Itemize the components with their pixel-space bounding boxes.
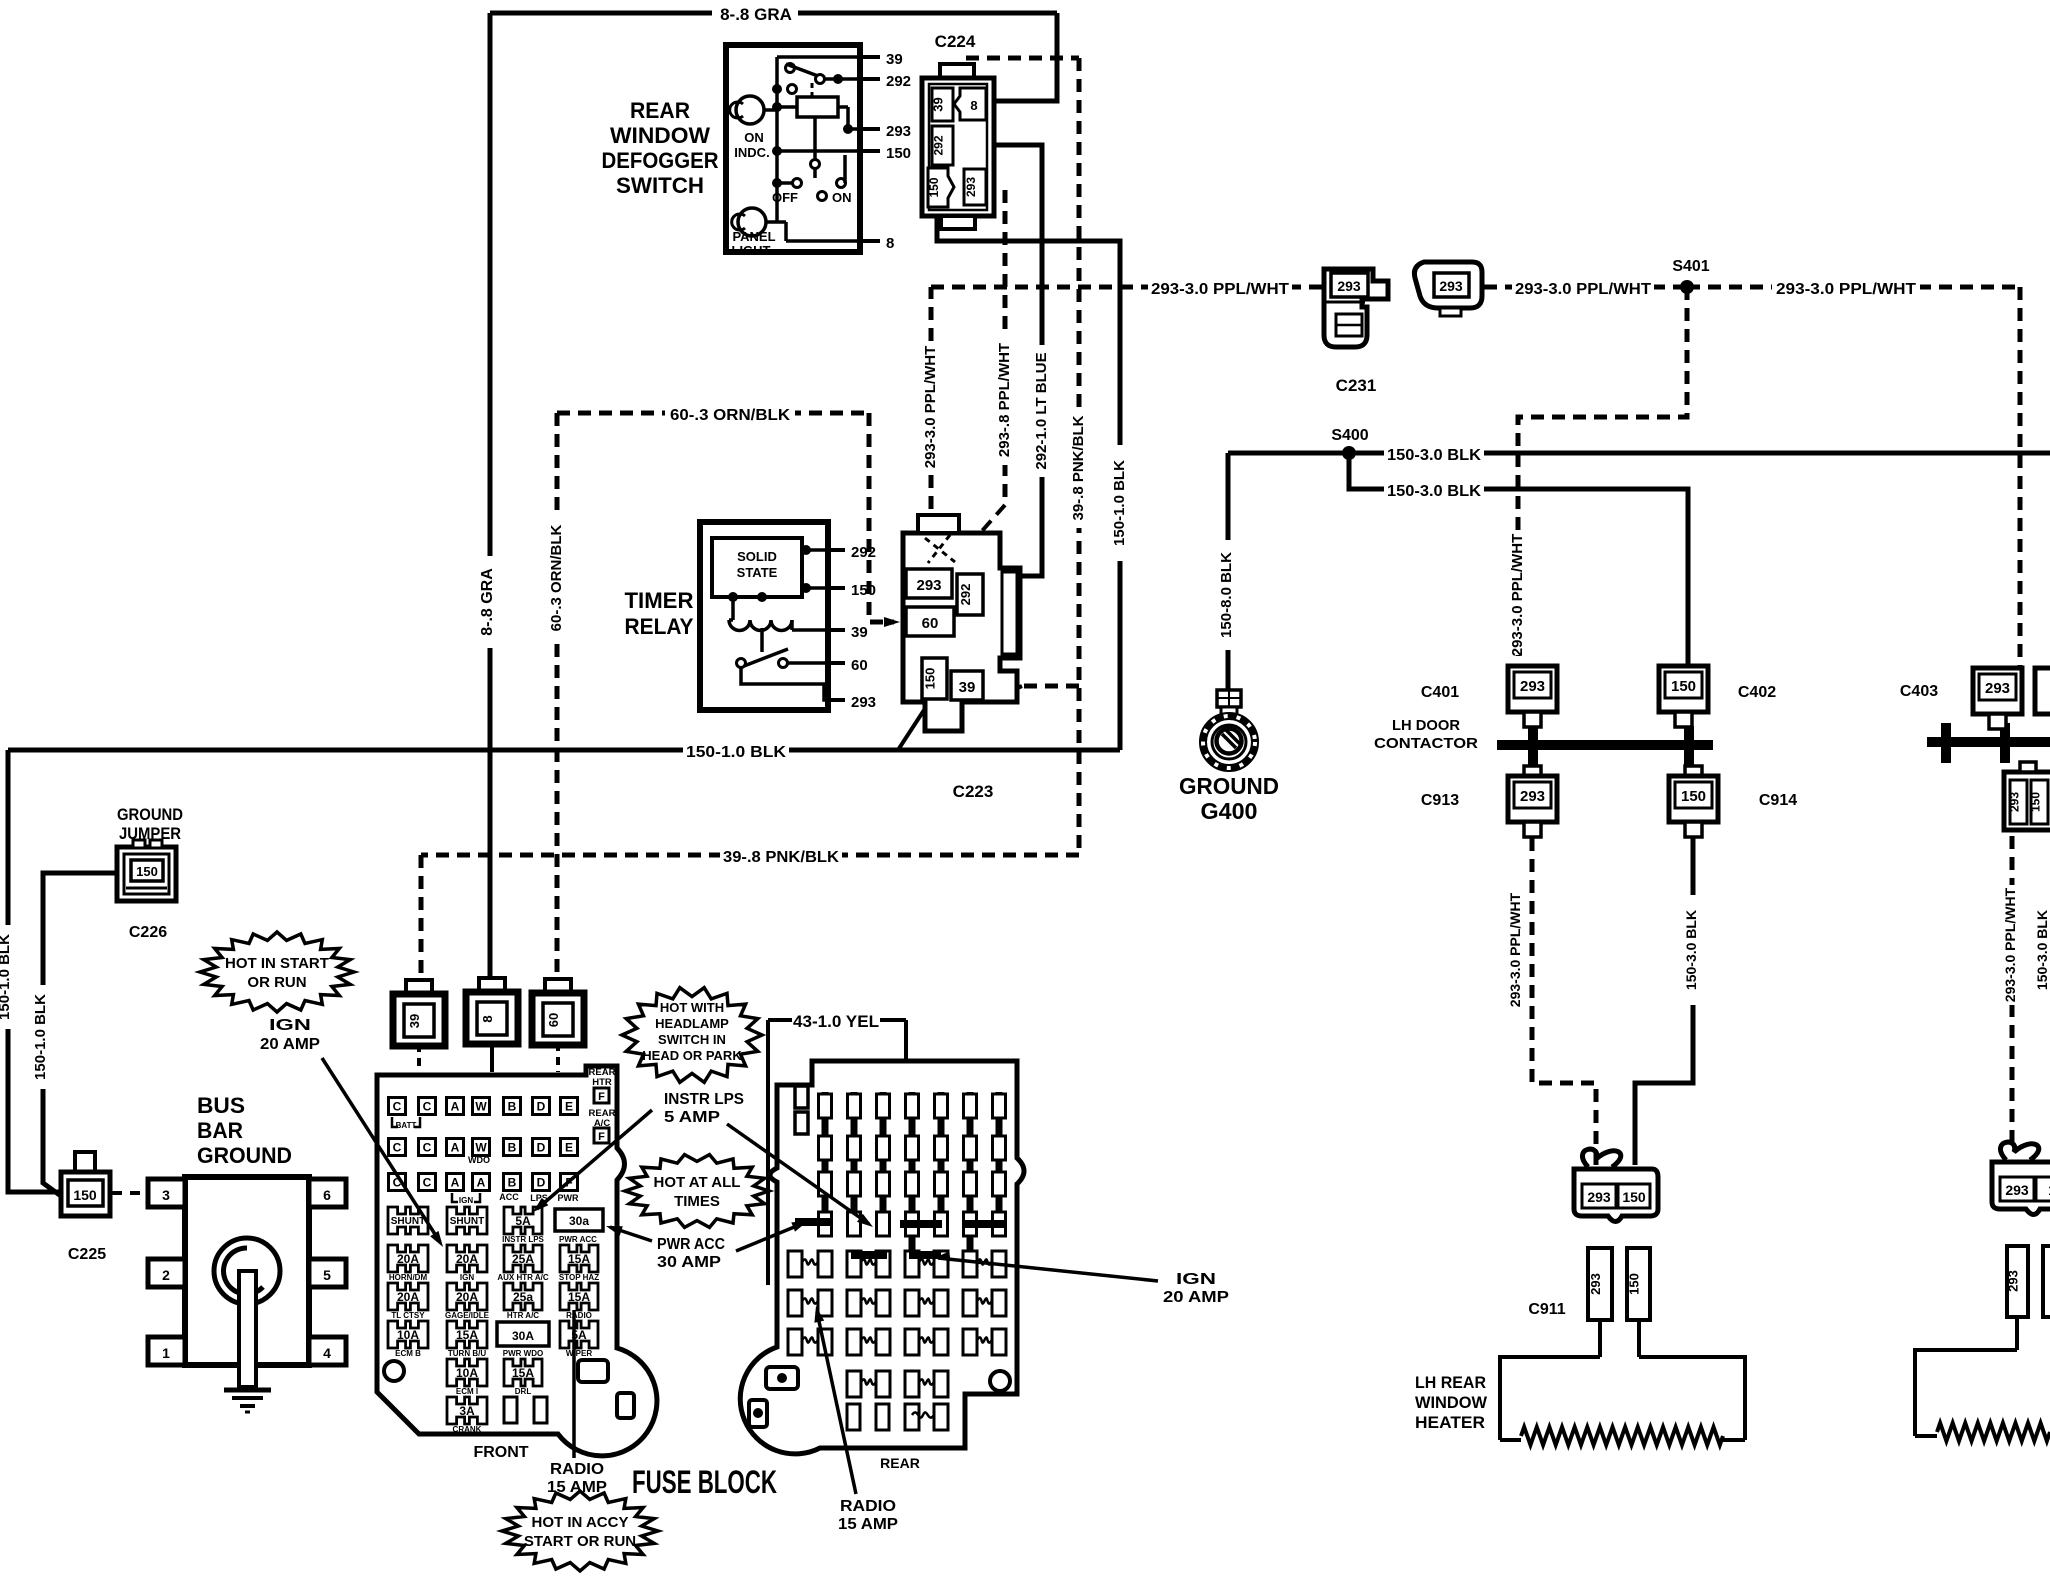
svg-text:293: 293 — [916, 577, 941, 594]
timer relay pin 292 — [828, 548, 845, 552]
svg-text:3A: 3A — [459, 1404, 475, 1418]
svg-text:SHUNT: SHUNT — [450, 1216, 484, 1227]
svg-text:WIPER: WIPER — [566, 1349, 592, 1358]
svg-text:150: 150 — [136, 864, 158, 879]
svg-text:20 AMP: 20 AMP — [260, 1036, 320, 1053]
wires into right heater connector — [2015, 1317, 2019, 1350]
svg-text:C911: C911 — [1528, 1301, 1565, 1318]
svg-text:CRANK: CRANK — [453, 1425, 482, 1434]
svg-text:293: 293 — [1520, 788, 1545, 805]
svg-text:293: 293 — [1587, 1189, 1611, 1205]
wire 60-.3 ORN/BLK left drop to connector 60 — [555, 413, 560, 981]
svg-text:F: F — [598, 1131, 605, 1143]
switch internal bus wire — [775, 57, 779, 222]
INSTR LPS leader to rear fuse — [727, 1124, 869, 1224]
switch movable contact — [811, 160, 820, 169]
svg-text:293-3.0 PPL/WHT: 293-3.0 PPL/WHT — [1507, 892, 1523, 1007]
fuse TL CTSY 20A — [388, 1283, 428, 1310]
wire 293-3.0 PPL/WHT right column below connector — [2010, 836, 2015, 1147]
svg-text:C: C — [423, 1100, 432, 1114]
wire 8-.8 GRA right drop into C224 pin 8 — [993, 13, 1057, 101]
timer relay solid state box — [712, 538, 802, 597]
batt bracket label — [392, 1117, 420, 1127]
fuse HTR A/C 25A — [504, 1283, 542, 1310]
svg-text:150-3.0 BLK: 150-3.0 BLK — [1387, 483, 1481, 500]
fuse HORN/DM 20A — [388, 1245, 428, 1272]
wire 150-1.0 BLK from C224 pin 150 — [937, 216, 1120, 750]
svg-text:C224: C224 — [935, 32, 976, 51]
connector C226 — [117, 847, 176, 901]
svg-text:IGN: IGN — [459, 1196, 473, 1205]
wire 293-3.0 PPL/WHT S401 branch to C401 — [1518, 287, 1687, 666]
RH door contactor bar (partial) — [1927, 737, 2050, 747]
svg-text:TL CTSY: TL CTSY — [391, 1311, 425, 1320]
svg-text:293: 293 — [2005, 1182, 2029, 1198]
fuse block connector 8 — [479, 978, 505, 992]
svg-text:LIGHT: LIGHT — [732, 243, 771, 258]
svg-text:HOT IN ACCY: HOT IN ACCY — [532, 1514, 629, 1531]
svg-text:BAR: BAR — [197, 1118, 243, 1143]
wire 293-3.0 PPL/WHT from C223 up — [929, 287, 934, 530]
svg-text:C223: C223 — [953, 782, 994, 801]
svg-text:C403: C403 — [1900, 683, 1938, 700]
wire 293-3.0 PPL/WHT far right drop to C403 — [2018, 287, 2023, 666]
wire 293-3.0 PPL/WHT horizontal to C231 — [931, 285, 1322, 290]
svg-text:REAR: REAR — [880, 1455, 920, 1471]
switch contact small — [788, 85, 797, 94]
svg-text:D: D — [537, 1176, 546, 1190]
fuse block connector 60 — [545, 979, 571, 993]
svg-text:8-.8 GRA: 8-.8 GRA — [479, 568, 496, 636]
timer relay box — [700, 522, 828, 710]
svg-text:150: 150 — [886, 145, 911, 162]
RH heater element — [1915, 1434, 1937, 1438]
rear block top-left bus tie — [851, 1251, 887, 1259]
svg-text:15A: 15A — [512, 1366, 534, 1380]
svg-text:60-.3 ORN/BLK: 60-.3 ORN/BLK — [670, 407, 790, 424]
svg-text:GROUND: GROUND — [1179, 773, 1279, 799]
svg-text:ACC: ACC — [499, 1192, 519, 1202]
svg-text:60: 60 — [922, 615, 939, 632]
svg-text:293: 293 — [1588, 1273, 1603, 1295]
fuse RADIO 15A — [560, 1283, 598, 1310]
fuse PWR WDO 30A — [497, 1322, 549, 1346]
svg-text:150-1.0 BLK: 150-1.0 BLK — [1111, 460, 1128, 546]
svg-text:150: 150 — [1681, 788, 1706, 805]
wire 150-1.0 BLK stub to C223 cavity 150 — [898, 704, 928, 750]
svg-text:20A: 20A — [397, 1290, 419, 1304]
fuse INSTR LPS 5A — [504, 1207, 542, 1234]
wire 150-8.0 BLK to ground G400 — [1226, 453, 1231, 690]
heater connector left (C911 mate) — [1582, 1149, 1620, 1167]
svg-text:5A: 5A — [515, 1214, 531, 1228]
wire 293-.8 PPL/WHT arrow into C223 cavity 293 — [958, 505, 1005, 558]
svg-text:C: C — [393, 1100, 402, 1114]
dashed link C225 to bus bar — [112, 1191, 146, 1195]
connector C401 — [1508, 666, 1557, 712]
fuse block connector 39 — [406, 980, 432, 994]
connector C224 body — [940, 64, 974, 78]
fuse WIPER 5A — [560, 1321, 598, 1348]
svg-text:C231: C231 — [1336, 376, 1377, 395]
C224 cavity 293 — [964, 169, 986, 205]
svg-text:LH DOOR: LH DOOR — [1392, 717, 1460, 734]
svg-text:F: F — [598, 1091, 605, 1103]
fuse TURN B/U 15A — [447, 1321, 487, 1348]
spare fuse slots — [504, 1397, 517, 1423]
svg-text:BUS: BUS — [197, 1093, 245, 1118]
bus bar pin 6 — [309, 1179, 346, 1207]
svg-text:INSTR LPS: INSTR LPS — [664, 1091, 744, 1108]
svg-text:C: C — [423, 1141, 432, 1155]
svg-text:150: 150 — [927, 177, 941, 197]
rear block lower elements — [847, 1371, 861, 1397]
svg-text:PANEL: PANEL — [732, 229, 775, 244]
switch pin stub 39 — [860, 55, 880, 59]
svg-text:FRONT: FRONT — [473, 1444, 528, 1461]
ign bracket label — [452, 1193, 480, 1202]
IGN 20 AMP leader line — [322, 1058, 440, 1242]
rear fuse block outline — [740, 1061, 1024, 1454]
rear window defogger switch box — [726, 45, 860, 252]
fuse AUX HTR A/C 25A — [504, 1245, 542, 1272]
svg-text:PWR WDO: PWR WDO — [503, 1349, 543, 1358]
fuse GAGE/IDLE 20A — [447, 1283, 487, 1310]
svg-text:SOLID: SOLID — [737, 549, 777, 564]
switch contact top — [786, 64, 795, 73]
svg-text:OFF: OFF — [772, 190, 798, 205]
connector C402 — [1659, 666, 1708, 712]
C223 hatch marks — [925, 538, 955, 562]
svg-text:IGN: IGN — [269, 1017, 311, 1034]
svg-text:293: 293 — [851, 694, 876, 711]
svg-text:PWR ACC: PWR ACC — [559, 1235, 597, 1244]
connector C231 half B — [1414, 262, 1482, 308]
svg-text:HOT WITH: HOT WITH — [660, 1000, 724, 1015]
svg-text:15 AMP: 15 AMP — [838, 1516, 898, 1533]
PWR ACC leader to front 30A — [610, 1227, 652, 1241]
svg-text:WINDOW: WINDOW — [610, 123, 710, 148]
connector C225 — [75, 1152, 95, 1172]
svg-text:8: 8 — [886, 235, 894, 252]
svg-text:8-.8 GRA: 8-.8 GRA — [720, 5, 792, 24]
switch pin stub 292 — [860, 77, 880, 81]
bus bar pin 1 — [148, 1337, 185, 1365]
svg-text:A: A — [451, 1141, 460, 1155]
rear block fuse element rows — [788, 1251, 802, 1277]
C223 cavity 39 — [951, 671, 983, 700]
svg-text:2: 2 — [162, 1267, 170, 1283]
svg-text:PWR ACC: PWR ACC — [657, 1236, 725, 1253]
svg-text:60: 60 — [851, 657, 868, 674]
INSTR LPS leader to front 5A fuse — [537, 1110, 652, 1209]
svg-text:A: A — [477, 1176, 486, 1190]
wire 150-3.0 BLK below C914 — [1635, 838, 1693, 1165]
wire 150-1.0 BLK left edge vertical — [8, 750, 61, 1192]
right body connector 293/150 — [2004, 772, 2050, 830]
svg-text:GROUND: GROUND — [117, 805, 183, 824]
svg-text:3: 3 — [162, 1187, 170, 1203]
svg-text:E: E — [565, 1141, 573, 1155]
svg-text:DRL: DRL — [515, 1387, 532, 1396]
C223 cavity 292 — [957, 574, 983, 615]
timer relay pin 60 — [828, 661, 845, 665]
svg-text:5: 5 — [323, 1267, 331, 1283]
svg-text:HOT IN START: HOT IN START — [225, 955, 329, 972]
svg-text:INSTR LPS: INSTR LPS — [502, 1235, 544, 1244]
RADIO leader front — [572, 1310, 576, 1458]
svg-text:GAGE/IDLE: GAGE/IDLE — [445, 1311, 490, 1320]
rear block bus bars — [822, 1092, 829, 1236]
connector C223 body — [903, 533, 1020, 731]
svg-text:FUSE BLOCK: FUSE BLOCK — [632, 1464, 777, 1500]
svg-text:C: C — [393, 1141, 402, 1155]
fuse DRL 15A — [504, 1359, 542, 1386]
svg-text:150-8.0 BLK: 150-8.0 BLK — [1218, 552, 1235, 638]
fuse PWR ACC 30A — [555, 1209, 603, 1231]
C224 cavity 8 — [954, 88, 986, 120]
front fuse block letter grid — [389, 1098, 406, 1115]
wire 293-3.0 PPL/WHT below C913 — [1532, 838, 1596, 1165]
C224 cavity 292 — [932, 126, 953, 165]
svg-text:150: 150 — [2029, 792, 2043, 812]
svg-text:150-3.0 BLK: 150-3.0 BLK — [1387, 447, 1481, 464]
rear block left clip — [795, 1086, 808, 1108]
svg-text:293-3.0 PPL/WHT: 293-3.0 PPL/WHT — [1509, 534, 1526, 657]
svg-text:39: 39 — [959, 679, 976, 696]
wire 150-1.0 BLK ground jumper branch — [43, 873, 117, 1196]
switch 150 contact row — [772, 146, 782, 156]
svg-text:293-3.0 PPL/WHT: 293-3.0 PPL/WHT — [922, 346, 939, 469]
svg-text:292-1.0 LT BLUE: 292-1.0 LT BLUE — [1033, 352, 1050, 469]
switch lamp PANEL LIGHT — [738, 208, 766, 236]
callout HOT IN START OR RUN — [200, 932, 354, 1012]
bus bar pin 4 — [309, 1337, 346, 1365]
svg-text:150-3.0 BLK: 150-3.0 BLK — [2034, 910, 2050, 990]
callout HOT IN ACCY START OR RUN — [502, 1491, 658, 1571]
connector C914 — [1685, 766, 1702, 776]
svg-text:RADIO: RADIO — [550, 1461, 604, 1478]
fuse SHUNT 1 — [388, 1207, 428, 1234]
LH rear window heater element — [1500, 1438, 1521, 1442]
callout HOT AT ALL TIMES — [625, 1155, 769, 1228]
front fuse block holes — [384, 1361, 404, 1381]
svg-text:RADIO: RADIO — [840, 1498, 896, 1515]
wires into left heater connector — [1598, 1320, 1602, 1357]
svg-text:D: D — [537, 1141, 546, 1155]
IGN 20 AMP leader to rear fuse — [938, 1258, 1158, 1281]
svg-text:HOT AT ALL: HOT AT ALL — [654, 1174, 741, 1191]
wire 39-.8 PNK/BLK vertical x1079 — [1077, 58, 1082, 855]
wire 293-.8 PPL/WHT from C224 pin 293 — [1003, 190, 1008, 505]
switch dashed link — [811, 83, 814, 97]
svg-text:150: 150 — [1671, 678, 1696, 695]
wire 292-1.0 LT BLUE from C224 pin 292 — [993, 145, 1042, 576]
svg-text:293: 293 — [1520, 678, 1545, 695]
svg-text:STATE: STATE — [737, 565, 778, 580]
C224 cavity 39 — [932, 88, 953, 121]
ground G400 symbol — [1217, 690, 1241, 707]
svg-text:HORN/DM: HORN/DM — [389, 1273, 428, 1282]
svg-text:W: W — [475, 1100, 487, 1114]
timer relay switch — [760, 628, 764, 652]
svg-text:150: 150 — [1627, 1273, 1642, 1295]
svg-text:HTR: HTR — [592, 1077, 612, 1088]
svg-text:15 AMP: 15 AMP — [547, 1479, 607, 1496]
heater connector right (partial) — [2000, 1142, 2038, 1160]
svg-text:293-3.0 PPL/WHT: 293-3.0 PPL/WHT — [1776, 281, 1916, 298]
svg-text:150: 150 — [1622, 1189, 1646, 1205]
svg-text:HEADLAMP: HEADLAMP — [655, 1016, 729, 1031]
C224 cavity 150 — [928, 168, 954, 207]
svg-text:E: E — [565, 1100, 573, 1114]
svg-text:15A: 15A — [568, 1252, 590, 1266]
svg-text:293: 293 — [1337, 278, 1361, 294]
svg-text:60: 60 — [546, 1013, 561, 1027]
svg-text:S400: S400 — [1331, 427, 1368, 444]
svg-text:D: D — [537, 1100, 546, 1114]
wire 293-3.0 PPL/WHT right of S401 — [1687, 285, 2020, 290]
svg-text:292: 292 — [932, 135, 946, 155]
svg-text:15A: 15A — [456, 1328, 478, 1342]
connector C913 — [1524, 766, 1541, 776]
bus bar stud and shaft — [214, 1238, 280, 1304]
timer relay coil — [731, 597, 735, 620]
switch pin stub 293 — [860, 127, 880, 131]
svg-text:39: 39 — [851, 624, 868, 641]
svg-text:PWR: PWR — [558, 1193, 579, 1203]
callout HOT WITH HEADLAMP SWITCH IN HEAD OR PARK — [622, 988, 762, 1083]
LH door contactor bar — [1497, 740, 1713, 750]
svg-text:HEAD OR PARK: HEAD OR PARK — [642, 1048, 742, 1063]
wire 150-3.0 BLK right column partial label — [2038, 900, 2050, 1000]
svg-text:BATT: BATT — [396, 1121, 417, 1130]
svg-text:292: 292 — [958, 584, 973, 606]
rear block bus links — [795, 1218, 831, 1226]
node S400 — [1342, 446, 1356, 460]
svg-text:293: 293 — [1439, 278, 1463, 294]
svg-text:39-.8 PNK/BLK: 39-.8 PNK/BLK — [723, 849, 839, 866]
svg-text:60-.3 ORN/BLK: 60-.3 ORN/BLK — [548, 524, 565, 631]
svg-text:G400: G400 — [1201, 798, 1258, 824]
svg-text:IGN: IGN — [460, 1273, 474, 1282]
bus bar ground symbol — [224, 1388, 271, 1393]
svg-text:25a: 25a — [513, 1290, 533, 1304]
svg-text:20 AMP: 20 AMP — [1163, 1289, 1229, 1306]
svg-text:S401: S401 — [1672, 258, 1709, 275]
svg-text:293: 293 — [2006, 1270, 2021, 1292]
connector C403 mate partial — [2035, 668, 2050, 714]
switch lamp ON INDC — [736, 96, 764, 124]
svg-text:C914: C914 — [1759, 792, 1797, 809]
C223 cavity 293 — [906, 569, 952, 598]
svg-text:B: B — [508, 1141, 517, 1155]
svg-text:293-3.0 PPL/WHT: 293-3.0 PPL/WHT — [2002, 887, 2018, 1002]
svg-text:GROUND: GROUND — [197, 1143, 292, 1168]
svg-text:293-3.0 PPL/WHT: 293-3.0 PPL/WHT — [1515, 281, 1651, 298]
svg-text:AUX HTR A/C: AUX HTR A/C — [497, 1273, 548, 1282]
C223 cavity 60 — [906, 607, 954, 636]
svg-text:ECM I: ECM I — [456, 1387, 478, 1396]
svg-text:RADIO: RADIO — [566, 1311, 592, 1320]
svg-text:293: 293 — [2008, 792, 2022, 812]
timer relay pin 293 — [828, 698, 845, 702]
svg-text:150-1.0 BLK: 150-1.0 BLK — [686, 744, 786, 761]
svg-text:REAR: REAR — [630, 98, 690, 123]
RH rear window heater leads — [1915, 1350, 2017, 1436]
svg-text:SWITCH: SWITCH — [616, 173, 704, 198]
C911 pin 293 — [1588, 1248, 1612, 1320]
svg-text:5 AMP: 5 AMP — [664, 1109, 720, 1126]
svg-text:293: 293 — [1985, 680, 2010, 697]
bus bar pin 2 — [148, 1259, 185, 1287]
svg-text:8: 8 — [970, 98, 977, 113]
wire 150-3.0 BLK main horizontal — [1228, 451, 2050, 456]
svg-text:292: 292 — [851, 544, 876, 561]
wire 60-.3 ORN/BLK horizontal y413 — [557, 411, 869, 416]
svg-text:150: 150 — [73, 1187, 97, 1203]
svg-text:ECM B: ECM B — [395, 1349, 421, 1358]
rear fuse block holes — [990, 1371, 1010, 1391]
wire 293-3.0 PPL/WHT arrow into C223 top — [931, 530, 946, 560]
wire 39-.8 PNK/BLK jog into C223 cavity 39 — [1022, 684, 1079, 689]
wire 43-1.0 YEL label bracket — [768, 1018, 792, 1022]
svg-text:30a: 30a — [569, 1214, 589, 1228]
svg-text:HEATER: HEATER — [1415, 1413, 1485, 1432]
svg-text:RELAY: RELAY — [625, 614, 694, 639]
svg-text:293-.8 PPL/WHT: 293-.8 PPL/WHT — [996, 343, 1013, 457]
front fuse block outline — [377, 1066, 657, 1456]
LH rear window heater leads — [1500, 1357, 1600, 1440]
node S401 — [1680, 280, 1694, 294]
svg-text:OR RUN: OR RUN — [247, 974, 306, 991]
svg-text:A: A — [451, 1100, 460, 1114]
svg-text:C: C — [423, 1176, 432, 1190]
wire 150-1.0 BLK horizontal y750 — [8, 748, 1120, 753]
wire 293-3.0 PPL/WHT between C231 and S401 — [1484, 285, 1687, 290]
switch pin stub 8 — [860, 239, 880, 243]
svg-text:C226: C226 — [129, 924, 167, 941]
C223 cavity 150 — [922, 658, 947, 699]
timer relay pin 150 — [828, 586, 845, 590]
wire 39-.8 PNK/BLK horizontal y855 — [421, 853, 1079, 858]
svg-text:START OR RUN: START OR RUN — [524, 1533, 636, 1550]
svg-text:TIMER: TIMER — [625, 588, 694, 613]
svg-text:20A: 20A — [456, 1252, 478, 1266]
svg-text:43-1.0 YEL: 43-1.0 YEL — [793, 1012, 879, 1031]
svg-text:10A: 10A — [397, 1328, 419, 1342]
svg-text:4: 4 — [323, 1345, 331, 1361]
svg-text:150-3.0 BLK: 150-3.0 BLK — [1683, 910, 1699, 990]
fuse IGN 20A — [447, 1245, 487, 1272]
svg-text:15A: 15A — [568, 1290, 590, 1304]
svg-text:IGN: IGN — [1176, 1271, 1216, 1288]
svg-text:A: A — [451, 1176, 460, 1190]
svg-text:293-3.0 PPL/WHT: 293-3.0 PPL/WHT — [1151, 281, 1289, 298]
svg-text:C225: C225 — [68, 1246, 106, 1263]
svg-text:STOP HAZ: STOP HAZ — [559, 1273, 599, 1282]
svg-text:8: 8 — [480, 1015, 495, 1022]
bus bar pin 5 — [309, 1259, 346, 1287]
wire 39-.8 PNK/BLK drop to connector 39 — [419, 855, 424, 981]
timer relay solid state connections — [802, 548, 828, 552]
svg-text:HTR A/C: HTR A/C — [507, 1311, 539, 1320]
svg-text:C402: C402 — [1738, 684, 1776, 701]
wire 39-.8 PNK/BLK from C224 top — [966, 56, 1079, 61]
svg-text:TURN B/U: TURN B/U — [448, 1349, 486, 1358]
svg-text:WINDOW: WINDOW — [1415, 1393, 1488, 1412]
svg-text:30A: 30A — [512, 1329, 534, 1343]
